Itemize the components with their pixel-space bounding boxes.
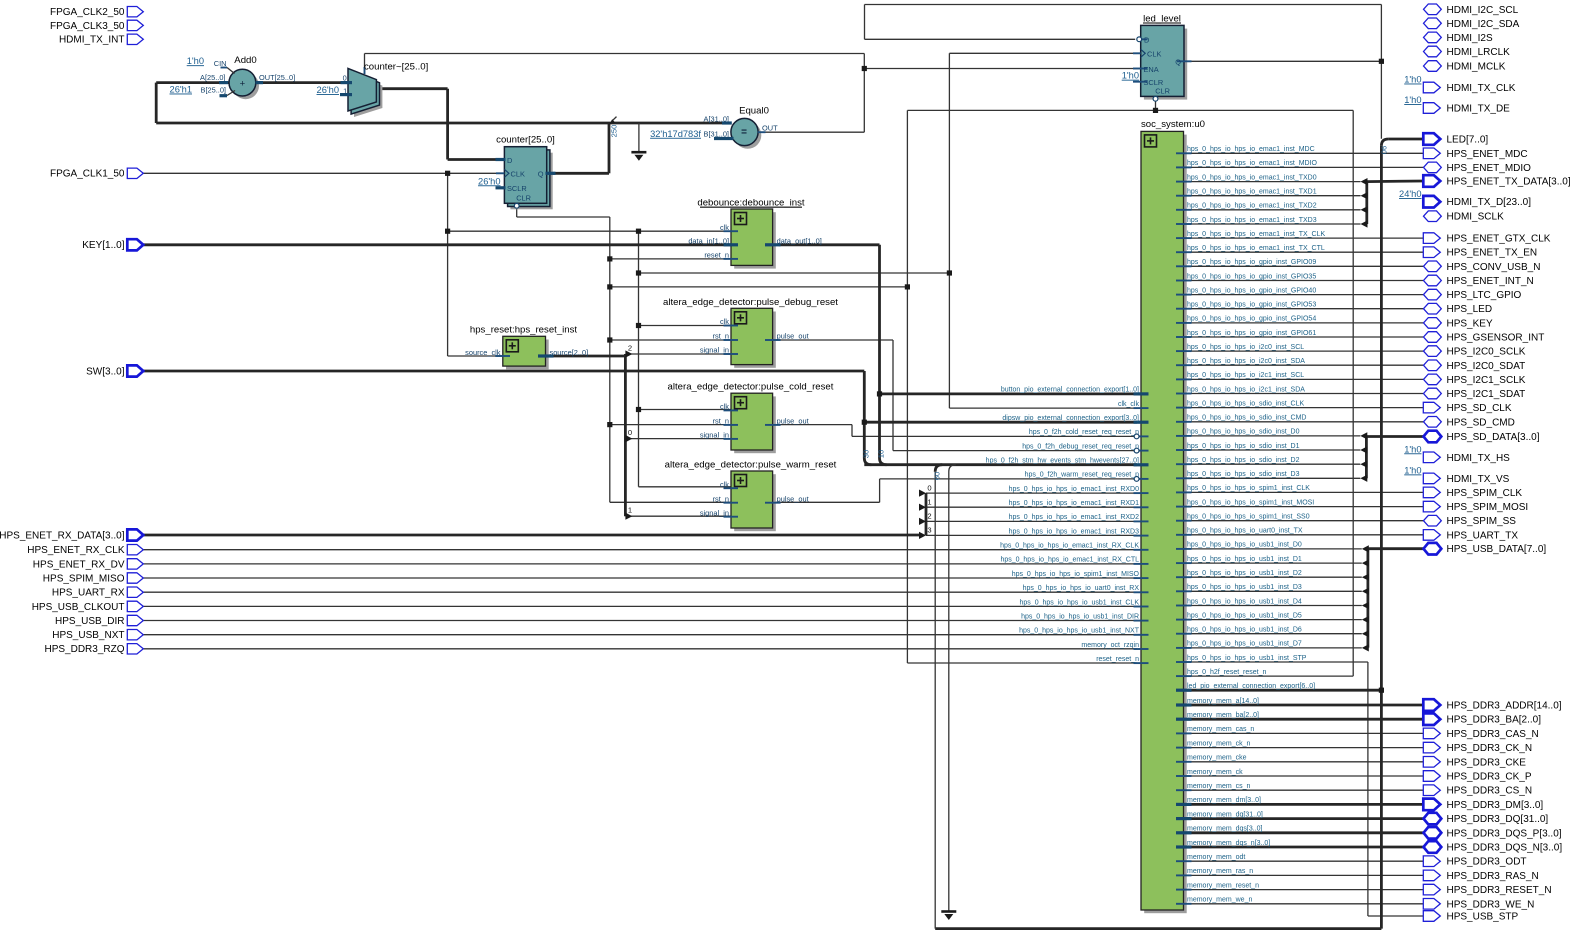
svg-text:memory_mem_dqs[3..0]: memory_mem_dqs[3..0]	[1187, 826, 1263, 833]
svg-text:1'h0: 1'h0	[1404, 75, 1421, 85]
output pin HPS_DDR3_BA[2..0]	[1423, 713, 1440, 725]
svg-text:HPS_DDR3_ODT: HPS_DDR3_ODT	[1447, 857, 1527, 868]
svg-text:CLR: CLR	[1155, 87, 1170, 96]
wire GPIO40 to pin	[1184, 294, 1424, 296]
svg-text:hps_0_hps_io_hps_io_usb1_inst_: hps_0_hps_io_hps_io_usb1_inst_STP	[1187, 655, 1307, 662]
svg-text:hps_0_hps_io_hps_io_emac1_inst: hps_0_hps_io_hps_io_emac1_inst_TXD2	[1187, 203, 1317, 210]
wire mem_cs_n to pin	[1184, 789, 1424, 791]
output pin HPS_I2C0_SDAT	[1424, 360, 1442, 371]
output pin HPS_ENET_GTX_CLK	[1423, 233, 1440, 244]
svg-text:HPS_DDR3_DQ[31..0]: HPS_DDR3_DQ[31..0]	[1447, 814, 1549, 825]
debounce stubs	[724, 230, 739, 232]
wire usb1 D4	[1184, 605, 1362, 607]
wire emac1 RXD0 port	[926, 492, 1137, 494]
svg-text:hps_0_hps_io_hps_io_uart0_inst: hps_0_hps_io_hps_io_uart0_inst_TX	[1187, 528, 1303, 535]
wire h2f_reset port	[1184, 675, 1354, 677]
svg-text:1'h0: 1'h0	[1404, 95, 1421, 105]
block altera_edge_detector:pulse_warm_reset	[734, 474, 776, 531]
svg-text:2: 2	[628, 343, 632, 352]
wire MDC to pin	[1184, 152, 1424, 154]
soc_system right port stubs	[1176, 152, 1192, 154]
wire D loop left	[864, 5, 866, 40]
wire usb1 D3	[1184, 590, 1362, 592]
output pin HPS_LTC_GPIO	[1424, 289, 1442, 300]
wire counter CLR stub	[516, 208, 518, 217]
svg-text:HPS_CONV_USB_N: HPS_CONV_USB_N	[1447, 262, 1541, 273]
output pin HPS_SD_CLK	[1423, 402, 1440, 413]
wire HPS_USB_NXT to soc port	[143, 634, 1137, 636]
svg-text:hps_0_hps_io_hps_io_usb1_inst_: hps_0_hps_io_hps_io_usb1_inst_D4	[1187, 598, 1302, 605]
svg-text:HPS_ENET_TX_EN: HPS_ENET_TX_EN	[1447, 248, 1538, 259]
soc_system left port labels	[986, 387, 1140, 663]
wire to HPS_USB_STP pin	[1368, 915, 1424, 917]
svg-text:counter~[25..0]: counter~[25..0]	[364, 62, 428, 73]
svg-text:rst_n: rst_n	[713, 494, 729, 503]
svg-text:hps_0_hps_io_hps_io_sdio_inst_: hps_0_hps_io_hps_io_sdio_inst_CLK	[1187, 400, 1304, 407]
svg-text:Q: Q	[538, 170, 544, 179]
svg-text:hps_0_hps_io_hps_io_uart0_inst: hps_0_hps_io_hps_io_uart0_inst_RX	[1023, 585, 1140, 592]
svg-text:2: 2	[927, 512, 931, 521]
wire usb1 STP	[1184, 661, 1368, 663]
wire spim1_CLK to pin	[1184, 491, 1424, 493]
svg-text:1: 1	[927, 497, 931, 506]
output pin HDMI_I2S	[1424, 32, 1442, 43]
wire clk to pulse_warm_reset	[639, 486, 732, 488]
svg-text:D: D	[1144, 36, 1149, 45]
svg-text:hps_0_hps_io_hps_io_emac1_inst: hps_0_hps_io_hps_io_emac1_inst_TXD1	[1187, 189, 1317, 196]
output pin HPS_DDR3_CAS_N	[1423, 728, 1440, 739]
wire counter CLR run	[517, 216, 610, 218]
svg-text:HPS_DDR3_ADDR[14..0]: HPS_DDR3_ADDR[14..0]	[1447, 701, 1562, 712]
svg-text:CLR: CLR	[516, 193, 531, 202]
svg-text:HPS_ENET_MDC: HPS_ENET_MDC	[1447, 149, 1528, 160]
svg-text:HDMI_TX_DE: HDMI_TX_DE	[1447, 104, 1511, 115]
svg-text:OUT[25..0]: OUT[25..0]	[259, 73, 295, 82]
svg-text:30: 30	[862, 450, 871, 458]
wire mem_ba bus to pin	[1184, 718, 1424, 721]
output pin HDMI_TX_CLK	[1423, 82, 1440, 93]
svg-text:rst_n: rst_n	[713, 417, 729, 426]
svg-text:memory_mem_ck_n: memory_mem_ck_n	[1187, 740, 1251, 747]
wire clk trunk down to hps_reset	[447, 173, 449, 356]
output pins right column	[1423, 4, 1571, 923]
wire FPGA_CLK1_50 to counter CLK	[143, 172, 504, 174]
hps_reset stubs	[495, 355, 510, 357]
wire usb1 D6	[1184, 633, 1362, 635]
svg-text:CIN: CIN	[214, 59, 227, 68]
svg-text:hps_0_hps_io_hps_io_emac1_inst: hps_0_hps_io_hps_io_emac1_inst_TXD0	[1187, 174, 1317, 181]
wire SW vertical	[863, 371, 866, 458]
output pin HPS_DDR3_CKE	[1423, 757, 1440, 768]
wire HPS_UART_RX to soc port	[143, 591, 1137, 593]
output pin HPS_I2C1_SCLK	[1424, 374, 1442, 385]
register counter[25..0]	[510, 153, 552, 210]
svg-text:HPS_SD_CLK: HPS_SD_CLK	[1447, 403, 1512, 414]
svg-text:Add0: Add0	[234, 55, 256, 66]
svg-text:hps_0_hps_io_hps_io_sdio_inst_: hps_0_hps_io_hps_io_sdio_inst_D1	[1187, 443, 1300, 450]
svg-text:pulse_out: pulse_out	[777, 332, 809, 341]
wire D loop right vertical	[1380, 5, 1382, 139]
wire led_level CLR stub	[1155, 101, 1157, 110]
output pin LED[7..0]	[1423, 133, 1440, 145]
svg-text:HPS_DDR3_BA[2..0]: HPS_DDR3_BA[2..0]	[1447, 715, 1542, 726]
svg-text:hps_0_hps_io_hps_io_emac1_inst: hps_0_hps_io_hps_io_emac1_inst_MDIO	[1187, 160, 1318, 167]
wire rst_n to pulse_warm_reset	[610, 501, 731, 503]
wire mem_cke to pin	[1184, 761, 1424, 763]
wire debug pulse vertical	[892, 340, 894, 451]
svg-text:1'h0: 1'h0	[1404, 465, 1421, 475]
svg-text:memory_mem_we_n: memory_mem_we_n	[1187, 897, 1252, 904]
svg-text:hps_0_f2h_debug_reset_req_rese: hps_0_f2h_debug_reset_req_reset_n	[1022, 443, 1139, 450]
svg-text:altera_edge_detector:pulse_deb: altera_edge_detector:pulse_debug_reset	[663, 297, 838, 308]
input pin FPGA_CLK3_50	[127, 20, 143, 30]
wire spim1_MOSI to pin	[1184, 506, 1424, 508]
wire mem_ras_n to pin	[1184, 874, 1424, 876]
svg-text:memory_mem_dm[3..0]: memory_mem_dm[3..0]	[1187, 797, 1261, 804]
svg-text:CLK: CLK	[511, 170, 525, 179]
svg-text:hps_0_hps_io_hps_io_emac1_inst: hps_0_hps_io_hps_io_emac1_inst_RXD2	[1009, 514, 1139, 521]
wire cold pulse jog	[851, 425, 853, 437]
output pin HDMI_TX_VS	[1423, 473, 1440, 484]
svg-text:hps_0_hps_io_hps_io_emac1_inst: hps_0_hps_io_hps_io_emac1_inst_TX_CTL	[1187, 245, 1325, 252]
svg-text:altera_edge_detector:pulse_war: altera_edge_detector:pulse_warm_reset	[665, 459, 837, 470]
svg-text:HDMI_TX_HS: HDMI_TX_HS	[1447, 453, 1511, 464]
wire sdio_CMD to pin	[1184, 421, 1424, 423]
wire counter Q up	[608, 123, 611, 173]
wire HPS_ENET_RX_DATA bus	[143, 534, 921, 537]
output pin HPS_DDR3_ADDR[14..0]	[1423, 699, 1440, 711]
output pin HPS_DDR3_RESET_N	[1423, 884, 1440, 895]
output pin HPS_UART_TX	[1423, 530, 1440, 541]
svg-text:1'h0: 1'h0	[1122, 71, 1139, 81]
svg-text:HPS_LTC_GPIO: HPS_LTC_GPIO	[1447, 290, 1522, 301]
svg-text:Equal0: Equal0	[739, 106, 769, 117]
svg-text:hps_0_hps_io_hps_io_usb1_inst_: hps_0_hps_io_hps_io_usb1_inst_D1	[1187, 556, 1302, 563]
wire mem_a bus to pin	[1184, 704, 1424, 707]
wire stm gnd vertical	[949, 465, 956, 912]
wire led_pio port	[1184, 689, 1382, 692]
wire clk subtrunk	[638, 231, 640, 487]
wire KEY bus to debounce data_in	[143, 243, 731, 246]
svg-text:hps_0_hps_io_hps_io_emac1_inst: hps_0_hps_io_hps_io_emac1_inst_RXD1	[1009, 500, 1139, 507]
wire LED bus to pin	[1388, 138, 1423, 141]
svg-text:hps_0_hps_io_hps_io_spim1_inst: hps_0_hps_io_hps_io_spim1_inst_MOSI	[1187, 499, 1314, 506]
svg-text:memory_mem_cas_n: memory_mem_cas_n	[1187, 726, 1254, 733]
wire clk_clk port	[949, 407, 1137, 409]
constant value labels	[170, 56, 1422, 475]
wire Add0 A input	[156, 81, 229, 84]
svg-text:hps_0_hps_io_hps_io_i2c0_inst_: hps_0_hps_io_hps_io_i2c0_inst_SCL	[1187, 344, 1304, 351]
output pin HDMI_TX_HS	[1423, 452, 1440, 463]
input pins left column	[0, 7, 143, 656]
svg-text:HPS_ENET_GTX_CLK: HPS_ENET_GTX_CLK	[1447, 234, 1551, 245]
bus ripper arrows	[609, 117, 1369, 652]
svg-text:hps_0_hps_io_hps_io_gpio_inst_: hps_0_hps_io_hps_io_gpio_inst_GPIO35	[1187, 273, 1316, 280]
svg-text:memory_mem_reset_n: memory_mem_reset_n	[1187, 882, 1259, 889]
svg-text:pulse_out: pulse_out	[777, 494, 809, 503]
input pin HPS_USB_NXT	[127, 630, 143, 640]
mux counter~[25..0]	[354, 74, 382, 117]
output pin HDMI_LRCLK	[1424, 46, 1442, 57]
svg-text:hps_0_hps_io_hps_io_i2c1_inst_: hps_0_hps_io_hps_io_i2c1_inst_SCL	[1187, 372, 1304, 379]
svg-text:memory_oct_rzqin: memory_oct_rzqin	[1081, 642, 1139, 649]
svg-text:hps_0_f2h_warm_reset_req_reset: hps_0_f2h_warm_reset_req_reset_n	[1025, 472, 1140, 479]
wire sdio D0	[1184, 435, 1361, 437]
wire uart0_TX to pin	[1184, 534, 1424, 536]
svg-text:signal_in: signal_in	[700, 346, 729, 355]
output pin HPS_USB_DATA[7..0]	[1424, 543, 1442, 555]
svg-text:pulse_out: pulse_out	[777, 417, 809, 426]
svg-text:HPS_I2C1_SCLK: HPS_I2C1_SCLK	[1447, 375, 1526, 386]
svg-text:counter[25..0]: counter[25..0]	[496, 134, 555, 145]
output pin HPS_CONV_USB_N	[1424, 261, 1442, 272]
svg-text:clk: clk	[720, 480, 729, 489]
output pin HDMI_SCLK	[1424, 211, 1442, 222]
svg-text:hps_0_hps_io_hps_io_emac1_inst: hps_0_hps_io_hps_io_emac1_inst_MDC	[1187, 146, 1315, 153]
svg-text:3: 3	[927, 526, 931, 535]
wire D loop top	[865, 4, 1382, 6]
input pin HDMI_TX_INT	[127, 34, 143, 44]
svg-text:B[31..0]: B[31..0]	[704, 130, 729, 139]
adder Add0	[232, 72, 259, 99]
edge detector stubs	[724, 325, 739, 327]
svg-text:HPS_DDR3_DQS_N[3..0]: HPS_DDR3_DQS_N[3..0]	[1447, 843, 1563, 854]
svg-text:OUT: OUT	[762, 123, 778, 132]
output pin HDMI_I2C_SCL	[1424, 4, 1442, 15]
svg-text:hps_0_hps_io_hps_io_spim1_inst: hps_0_hps_io_hps_io_spim1_inst_MISO	[1012, 571, 1140, 578]
wire TX_CTL to pin	[1184, 251, 1424, 253]
wire mem_reset_n to pin	[1184, 889, 1424, 891]
output pin HPS_ENET_MDIO	[1424, 162, 1442, 173]
svg-text:HPS_ENET_RX_DV: HPS_ENET_RX_DV	[33, 559, 125, 570]
input pin HPS_ENET_RX_CLK	[127, 545, 143, 555]
port name labels	[200, 36, 1181, 518]
svg-text:HPS_USB_DATA[7..0]: HPS_USB_DATA[7..0]	[1447, 544, 1547, 555]
svg-text:HDMI_TX_D[23..0]: HDMI_TX_D[23..0]	[1447, 197, 1532, 208]
svg-text:HDMI_I2C_SCL: HDMI_I2C_SCL	[1447, 5, 1519, 16]
svg-text:hps_0_hps_io_hps_io_gpio_inst_: hps_0_hps_io_hps_io_gpio_inst_GPIO61	[1187, 330, 1316, 337]
wire mem_odt to pin	[1184, 860, 1424, 862]
svg-text:HPS_ENET_RX_DATA[3..0]: HPS_ENET_RX_DATA[3..0]	[0, 530, 125, 541]
wire HPS_DDR3_RZQ to soc port	[143, 648, 1137, 650]
svg-text:ENA: ENA	[1144, 65, 1159, 74]
svg-text:hps_0_hps_io_hps_io_usb1_inst_: hps_0_hps_io_hps_io_usb1_inst_D2	[1187, 570, 1302, 577]
svg-text:memory_mem_ck: memory_mem_ck	[1187, 769, 1243, 776]
block labels	[234, 13, 1205, 470]
wire reset_n to debounce	[610, 258, 737, 260]
wire rst_n to pulse_cold_reset	[610, 424, 731, 426]
svg-text:signal_in: signal_in	[700, 508, 729, 517]
svg-text:32'h17d783f: 32'h17d783f	[650, 129, 701, 139]
svg-text:HPS_ENET_TX_DATA[3..0]: HPS_ENET_TX_DATA[3..0]	[1447, 177, 1571, 188]
svg-text:HPS_GSENSOR_INT: HPS_GSENSOR_INT	[1447, 333, 1545, 344]
svg-text:60: 60	[932, 472, 941, 480]
svg-text:clk: clk	[720, 223, 729, 232]
wire sdio_CLK to pin	[1184, 407, 1424, 409]
svg-text:hps_0_hps_io_hps_io_usb1_inst_: hps_0_hps_io_hps_io_usb1_inst_D7	[1187, 641, 1302, 648]
wire usb1 D1	[1184, 562, 1362, 564]
wire reset top run	[907, 109, 1353, 111]
svg-text:HDMI_SCLK: HDMI_SCLK	[1447, 212, 1505, 223]
svg-text:hps_0_hps_io_hps_io_sdio_inst_: hps_0_hps_io_hps_io_sdio_inst_CMD	[1187, 415, 1306, 422]
svg-text:HPS_SPIM_CLK: HPS_SPIM_CLK	[1447, 488, 1523, 499]
svg-text:hps_0_hps_io_hps_io_sdio_inst_: hps_0_hps_io_hps_io_sdio_inst_D0	[1187, 429, 1300, 436]
wire led_pio bottom run	[935, 927, 1381, 930]
svg-text:HPS_KEY: HPS_KEY	[1447, 318, 1493, 329]
input pin HPS_ENET_RX_DATA[3..0]	[127, 529, 143, 540]
svg-text:hps_0_hps_io_hps_io_emac1_inst: hps_0_hps_io_hps_io_emac1_inst_RXD0	[1009, 486, 1139, 493]
svg-text:HDMI_I2S: HDMI_I2S	[1447, 33, 1493, 44]
svg-text:hps_0_f2h_cold_reset_req_reset: hps_0_f2h_cold_reset_req_reset_n	[1029, 429, 1139, 436]
svg-text:HPS_DDR3_RZQ: HPS_DDR3_RZQ	[44, 644, 124, 655]
wire usb1 STP vertical	[1367, 662, 1369, 916]
wire mux out down	[446, 89, 449, 160]
svg-text:HDMI_TX_INT: HDMI_TX_INT	[59, 35, 125, 46]
svg-text:HPS_I2C1_SDAT: HPS_I2C1_SDAT	[1447, 389, 1526, 400]
svg-text:source_clk: source_clk	[465, 348, 501, 357]
svg-text:HPS_DDR3_CK_P: HPS_DDR3_CK_P	[1447, 772, 1532, 783]
svg-text:HPS_DDR3_RESET_N: HPS_DDR3_RESET_N	[1447, 885, 1552, 896]
svg-text:reset_reset_n: reset_reset_n	[1096, 656, 1139, 663]
block hps_reset:hps_reset_inst	[506, 340, 549, 370]
wire h2f_reset vertical	[1352, 110, 1354, 676]
wire mem_ck_n to pin	[1184, 747, 1424, 749]
svg-text:signal_in: signal_in	[700, 431, 729, 440]
svg-text:HPS_DDR3_CK_N: HPS_DDR3_CK_N	[1447, 743, 1533, 754]
wire reset cross run	[610, 286, 908, 288]
block altera_edge_detector:pulse_debug_reset	[734, 312, 776, 368]
wire HPS_SPIM_MISO to soc port	[143, 577, 1137, 579]
bit index labels	[628, 343, 932, 534]
svg-text:HDMI_TX_CLK: HDMI_TX_CLK	[1447, 83, 1516, 94]
soc_system right port labels	[1187, 146, 1325, 904]
output pin HPS_ENET_MDC	[1423, 148, 1440, 159]
svg-text:clk: clk	[720, 317, 729, 326]
wire to led_level CLK	[949, 52, 1174, 54]
soc_system left port stubs	[1134, 392, 1149, 395]
svg-text:HDMI_TX_VS: HDMI_TX_VS	[1447, 474, 1510, 485]
svg-text:data_in[1..0]: data_in[1..0]	[688, 237, 729, 246]
wire SD_DATA ripper vertical	[1365, 437, 1368, 479]
wire TX_DATA ripper vertical	[1365, 182, 1368, 224]
svg-text:SCLR: SCLR	[507, 184, 527, 193]
output pin HPS_DDR3_DQS_N[3..0]	[1424, 841, 1442, 853]
wire i2c1_SCL to pin	[1184, 378, 1424, 380]
svg-text:hps_0_hps_io_hps_io_gpio_inst_: hps_0_hps_io_hps_io_gpio_inst_GPIO53	[1187, 302, 1316, 309]
svg-text:dipsw_pio_external_connection_: dipsw_pio_external_connection_export[3..…	[1002, 415, 1139, 422]
svg-text:hps_0_hps_io_hps_io_usb1_inst_: hps_0_hps_io_hps_io_usb1_inst_DIR	[1021, 613, 1139, 620]
wire clk trunk right	[948, 53, 950, 408]
wire RX_DATA ripper vertical	[925, 493, 928, 535]
wire debug pulse_out	[773, 339, 893, 341]
output pin HPS_DDR3_DM[3..0]	[1423, 799, 1440, 811]
svg-text:FPGA_CLK1_50: FPGA_CLK1_50	[50, 169, 125, 180]
svg-text:hps_0_hps_io_hps_io_i2c0_inst_: hps_0_hps_io_hps_io_i2c0_inst_SDA	[1187, 358, 1305, 365]
output pin HPS_DDR3_WE_N	[1423, 899, 1440, 910]
svg-text:KEY[1..0]: KEY[1..0]	[82, 240, 124, 251]
svg-text:led_pio_external_connection_ex: led_pio_external_connection_export[6..0]	[1187, 683, 1315, 690]
svg-text:memory_mem_a[14..0]: memory_mem_a[14..0]	[1187, 698, 1259, 705]
wire to led_level ENA	[864, 68, 1174, 70]
svg-text:26'h0: 26'h0	[317, 85, 339, 95]
wire f2h_cold port	[852, 435, 1134, 437]
block altera_edge_detector:pulse_cold_reset	[734, 396, 776, 453]
svg-text:HPS_USB_NXT: HPS_USB_NXT	[52, 630, 124, 641]
wire HPS_USB_DATA bus	[1368, 547, 1424, 550]
wire emac1 TXD2	[1184, 209, 1361, 211]
svg-text:hps_0_hps_io_hps_io_emac1_inst: hps_0_hps_io_hps_io_emac1_inst_RXD3	[1009, 528, 1139, 535]
input pin HPS_USB_CLKOUT	[127, 601, 143, 611]
output pin HPS_DDR3_CS_N	[1423, 785, 1440, 796]
wire clk to pulse_debug_reset	[639, 325, 732, 327]
svg-text:A[31..0]: A[31..0]	[704, 115, 729, 124]
wire signal_in debug	[625, 353, 731, 355]
wire sdio D2	[1184, 463, 1361, 465]
wire usb1 D0	[1184, 548, 1362, 550]
svg-text:hps_0_hps_io_hps_io_gpio_inst_: hps_0_hps_io_hps_io_gpio_inst_GPIO40	[1187, 287, 1316, 294]
svg-text:=: =	[741, 127, 747, 138]
svg-text:hps_0_hps_io_hps_io_gpio_inst_: hps_0_hps_io_hps_io_gpio_inst_GPIO09	[1187, 259, 1316, 266]
svg-text:24'h0: 24'h0	[1399, 189, 1421, 199]
wire clk to pulse_cold_reset	[639, 409, 732, 411]
svg-text:hps_0_hps_io_hps_io_i2c1_inst_: hps_0_hps_io_hps_io_i2c1_inst_SDA	[1187, 386, 1305, 393]
svg-text:HPS_USB_DIR: HPS_USB_DIR	[55, 616, 124, 627]
wire USB_DATA ripper vertical	[1367, 549, 1370, 648]
svg-text:B[25..0]: B[25..0]	[201, 86, 226, 95]
wire counter Q out	[547, 172, 609, 175]
wire to led_level D	[865, 38, 1136, 40]
input pin HPS_USB_DIR	[127, 615, 143, 625]
wire HPS_USB_CLKOUT to soc port	[143, 605, 1137, 607]
svg-text:HDMI_MCLK: HDMI_MCLK	[1447, 62, 1506, 73]
wire mem_dqs bus to pin	[1184, 831, 1424, 834]
svg-text:hps_0_f2h_stm_hw_events_stm_hw: hps_0_f2h_stm_hw_events_stm_hwevents[27.…	[986, 458, 1139, 465]
wire clk cross run	[639, 272, 950, 274]
svg-text:data_out[1..0]: data_out[1..0]	[777, 237, 822, 246]
svg-text:D: D	[507, 156, 512, 165]
svg-text:HPS_SPIM_MOSI: HPS_SPIM_MOSI	[1447, 502, 1529, 513]
svg-text:hps_0_hps_io_hps_io_usb1_inst_: hps_0_hps_io_hps_io_usb1_inst_NXT	[1019, 628, 1140, 635]
svg-text:CLK: CLK	[1147, 50, 1161, 59]
counter ports	[504, 169, 509, 177]
wire f2h_warm port	[880, 478, 1134, 480]
svg-text:HPS_DDR3_DQS_P[3..0]: HPS_DDR3_DQS_P[3..0]	[1447, 828, 1562, 839]
wire button_pio port	[880, 392, 1138, 395]
output pin HPS_DDR3_DQS_P[3..0]	[1424, 827, 1442, 839]
output pin HDMI_MCLK	[1424, 61, 1442, 72]
svg-text:hps_0_hps_io_hps_io_usb1_inst_: hps_0_hps_io_hps_io_usb1_inst_D6	[1187, 627, 1302, 634]
svg-text:FPGA_CLK3_50: FPGA_CLK3_50	[50, 21, 125, 32]
svg-text:HPS_DDR3_RAS_N: HPS_DDR3_RAS_N	[1447, 871, 1539, 882]
input pin HPS_ENET_RX_DV	[127, 559, 143, 569]
output pin HPS_USB_STP	[1423, 911, 1440, 922]
svg-text:hps_0_hps_io_hps_io_emac1_inst: hps_0_hps_io_hps_io_emac1_inst_TX_CLK	[1187, 231, 1325, 238]
svg-text:HPS_ENET_RX_CLK: HPS_ENET_RX_CLK	[27, 545, 125, 556]
svg-text:memory_mem_ras_n: memory_mem_ras_n	[1187, 868, 1253, 875]
input pin KEY[1..0]	[127, 239, 143, 250]
output pin HPS_DDR3_CK_N	[1423, 742, 1440, 753]
wire emac1 TXD0	[1184, 181, 1361, 183]
wire sdio D1	[1184, 449, 1361, 451]
svg-text:hps_0_hps_io_hps_io_spim1_inst: hps_0_hps_io_hps_io_spim1_inst_CLK	[1187, 485, 1310, 492]
svg-text:SW[3..0]: SW[3..0]	[86, 366, 125, 377]
wire Equal0 OUT	[758, 131, 864, 133]
wire signal_in cold	[625, 438, 731, 440]
svg-text:altera_edge_detector:pulse_col: altera_edge_detector:pulse_cold_reset	[668, 381, 834, 392]
svg-text:HPS_I2C0_SDAT: HPS_I2C0_SDAT	[1447, 361, 1526, 372]
wire to counter D	[448, 158, 505, 161]
svg-text:memory_mem_cke: memory_mem_cke	[1187, 755, 1247, 762]
